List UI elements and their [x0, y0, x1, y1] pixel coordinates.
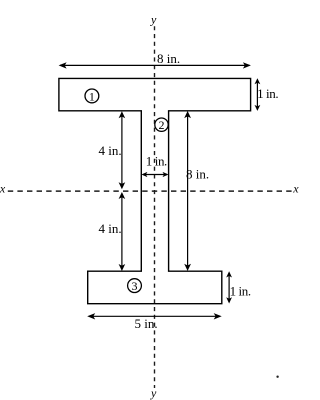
arrowhead up of 1 in. bottom right [226, 271, 232, 277]
arrowhead down of 4 in. upper [119, 182, 126, 189]
part number 2 circle [155, 118, 168, 131]
dimension 8 in. top width line [60, 64, 250, 66]
dimension 4 in. lower line [121, 194, 123, 270]
arrowhead left of 1 in. web [141, 172, 147, 177]
arrowhead down of 4 in. lower [119, 264, 126, 271]
arrowhead right of 1 in. web [163, 172, 169, 177]
svg-text:1: 1 [89, 89, 95, 103]
part number 1 circle [85, 89, 99, 103]
svg-text:3: 3 [132, 279, 138, 293]
svg-text:1 in.: 1 in. [230, 284, 251, 299]
svg-text:x: x [0, 181, 6, 195]
svg-text:5 in.: 5 in. [135, 316, 158, 331]
arrowhead down of 1 in. bottom right [226, 297, 232, 303]
stray dot bottom right [276, 376, 278, 378]
svg-text:1 in.: 1 in. [257, 86, 278, 101]
dimension 5 in. bottom width line [89, 315, 220, 317]
arrowhead up of 4 in. upper [119, 111, 126, 118]
svg-text:1 in.: 1 in. [146, 153, 167, 168]
svg-text:y: y [150, 12, 157, 26]
svg-text:x: x [292, 181, 299, 195]
dimension 8 in. web height line [187, 113, 189, 269]
arrowhead right of 5 in. bottom [214, 313, 222, 319]
dimension 4 in. upper line [121, 113, 123, 188]
svg-text:4 in.: 4 in. [99, 221, 122, 236]
arrowhead up of 8 in. web [184, 111, 191, 118]
arrowhead right of 8 in. top [243, 62, 251, 68]
svg-text:y: y [150, 386, 157, 400]
arrowhead up of 1 in. top right [255, 78, 261, 84]
dimension 1 in. top flange thickness line [256, 80, 258, 110]
dimension 1 in. bottom flange thickness line [228, 273, 230, 302]
part number 3 circle [128, 279, 142, 293]
svg-text:8 in.: 8 in. [186, 167, 209, 182]
arrowhead left of 5 in. bottom [87, 313, 95, 319]
x axis dashed line [8, 190, 293, 192]
svg-text:8 in.: 8 in. [157, 51, 180, 66]
arrowhead down of 1 in. top right [255, 105, 261, 111]
svg-text:2: 2 [159, 118, 165, 132]
arrowhead up of 4 in. lower [119, 192, 126, 199]
arrowhead down of 8 in. web [184, 264, 191, 271]
y axis dashed line [154, 26, 156, 388]
arrowhead left of 8 in. top [59, 62, 67, 68]
I-beam outline [59, 78, 251, 303]
dimension 1 in. web width line [143, 174, 167, 176]
svg-text:4 in.: 4 in. [99, 143, 122, 158]
